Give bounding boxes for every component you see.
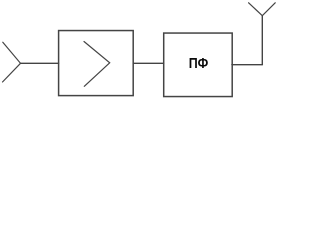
wire filter output to antenna riser <box>232 64 262 66</box>
wire amplifier output to filter input <box>133 62 164 64</box>
antenna ANT2 (transmit, top right) <box>249 3 276 16</box>
svg-text:ПФ: ПФ <box>189 55 209 72</box>
wire ANT1 to amplifier input <box>21 62 59 64</box>
amplifier A1 chevron symbol <box>84 42 110 87</box>
amplifier A1 box <box>59 31 134 96</box>
antenna ANT1 (receive, left) <box>3 42 21 82</box>
band-pass filter U1 box <box>164 33 233 97</box>
wire riser up to ANT2 <box>261 16 263 65</box>
